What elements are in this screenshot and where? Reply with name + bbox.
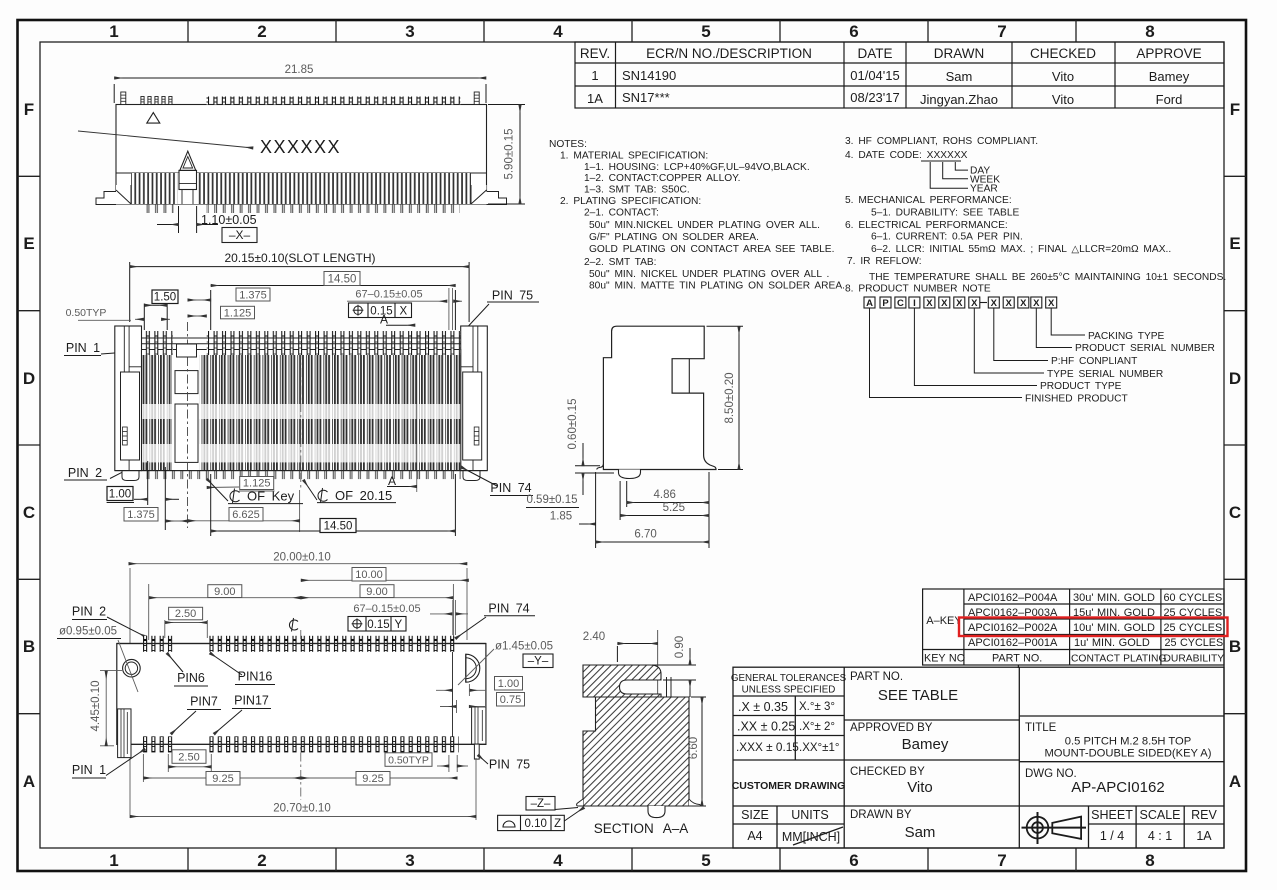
svg-text:X: X xyxy=(1006,298,1013,309)
top tick marks xyxy=(188,20,1076,42)
pin 75 tail xyxy=(474,744,479,759)
svg-text:3: 3 xyxy=(405,851,414,870)
date code underline + tree xyxy=(921,160,961,162)
svg-text:X: X xyxy=(941,298,948,309)
svg-text:20.15±0.10(SLOT LENGTH): 20.15±0.10(SLOT LENGTH) xyxy=(224,251,375,265)
svg-text:1–3. SMT TAB: S50C.: 1–3. SMT TAB: S50C. xyxy=(584,185,690,196)
svg-text:.XX ± 0.25: .XX ± 0.25 xyxy=(737,720,795,734)
svg-text:UNITS: UNITS xyxy=(791,808,829,822)
dim 21.85 xyxy=(114,78,486,103)
svg-text:TITLE: TITLE xyxy=(1025,722,1057,734)
svg-text:4 : 1: 4 : 1 xyxy=(1148,829,1172,843)
svg-text:9.00: 9.00 xyxy=(214,586,235,598)
svg-text:6.70: 6.70 xyxy=(634,529,656,541)
svg-text:8: 8 xyxy=(1145,851,1154,870)
svg-text:3. HF COMPLIANT, ROHS COMPLIAN: 3. HF COMPLIANT, ROHS COMPLIANT. xyxy=(845,136,1038,147)
svg-text:4: 4 xyxy=(553,851,563,870)
svg-text:5: 5 xyxy=(701,22,710,41)
svg-text:THE TEMPERATURE SHALL BE 260±5: THE TEMPERATURE SHALL BE 260±5°C MAINTAI… xyxy=(869,272,1226,283)
dim 1.00 xyxy=(107,487,133,501)
svg-text:F: F xyxy=(24,100,34,119)
svg-text:B: B xyxy=(1229,637,1241,656)
right SMT tab xyxy=(472,707,486,744)
middle molded body with contacts xyxy=(142,350,461,471)
strike through INCH xyxy=(793,827,843,845)
svg-text:0.50TYP: 0.50TYP xyxy=(66,307,107,319)
svg-text:50u" MIN. NICKEL UNDER PLATING: 50u" MIN. NICKEL UNDER PLATING OVER ALL … xyxy=(589,269,829,280)
svg-text:1.00: 1.00 xyxy=(109,489,131,501)
svg-text:X: X xyxy=(1033,298,1040,309)
svg-text:PIN16: PIN16 xyxy=(238,670,273,684)
svg-text:9.25: 9.25 xyxy=(362,773,383,785)
svg-text:20.00±0.10: 20.00±0.10 xyxy=(273,552,330,564)
svg-text:67–0.15±0.05: 67–0.15±0.05 xyxy=(353,603,420,615)
svg-text:CUSTOMER DRAWING: CUSTOMER DRAWING xyxy=(732,780,846,792)
svg-text:3: 3 xyxy=(405,22,414,41)
svg-text:F: F xyxy=(1230,100,1240,119)
svg-text:NOTES:: NOTES: xyxy=(549,139,587,150)
svg-text:6: 6 xyxy=(849,851,858,870)
svg-text:4: 4 xyxy=(553,22,563,41)
svg-text:PIN 75: PIN 75 xyxy=(492,289,533,303)
svg-text:APPROVED BY: APPROVED BY xyxy=(850,722,933,734)
svg-text:67–0.15±0.05: 67–0.15±0.05 xyxy=(355,289,422,301)
revision table grid xyxy=(575,42,1224,108)
svg-text:1: 1 xyxy=(109,22,118,41)
svg-text:01/04'15: 01/04'15 xyxy=(850,68,899,83)
svg-text:A: A xyxy=(388,474,396,488)
bottom corner steps xyxy=(116,185,131,204)
grid column numbers top xyxy=(109,22,1154,41)
D-shaped key hole xyxy=(466,654,480,682)
svg-text:AP-APCI0162: AP-APCI0162 xyxy=(1071,779,1164,796)
svg-text:PIN 2: PIN 2 xyxy=(68,466,102,480)
svg-text:GOLD PLATING ON CONTACT AREA S: GOLD PLATING ON CONTACT AREA SEE TABLE. xyxy=(589,244,834,255)
position frame 0.15 Y xyxy=(348,617,406,632)
dim 1.375 bottom xyxy=(124,508,158,522)
datum -Y- box xyxy=(523,654,553,668)
svg-text:7: 7 xyxy=(997,851,1006,870)
solder peg below xyxy=(648,806,665,818)
left tick marks xyxy=(18,176,41,713)
svg-text:.X ± 0.35: .X ± 0.35 xyxy=(738,700,788,714)
svg-text:CHECKED: CHECKED xyxy=(1030,46,1096,61)
svg-text:FINISHED PRODUCT: FINISHED PRODUCT xyxy=(1025,394,1128,405)
svg-text:KEY NO: KEY NO xyxy=(924,653,965,665)
svg-text:6–2. LLCR: INITIAL 55mΩ MAX. ;: 6–2. LLCR: INITIAL 55mΩ MAX. ; FINAL △LL… xyxy=(871,244,1171,255)
svg-text:A: A xyxy=(380,313,388,327)
svg-text:6–1. CURRENT: 0.5A PER PIN.: 6–1. CURRENT: 0.5A PER PIN. xyxy=(871,232,1023,243)
svg-text:1 / 4: 1 / 4 xyxy=(1100,829,1124,843)
svg-text:2. PLATING SPECIFICATION:: 2. PLATING SPECIFICATION: xyxy=(560,196,701,207)
svg-text:1: 1 xyxy=(591,68,598,83)
inner contact line in notch xyxy=(688,359,690,393)
hatched main body xyxy=(583,697,689,806)
svg-text:Vito: Vito xyxy=(907,779,933,796)
svg-text:.XXX ± 0.15: .XXX ± 0.15 xyxy=(736,740,799,754)
svg-text:CONTACT PLATING: CONTACT PLATING xyxy=(1071,654,1166,665)
top rail lines xyxy=(142,337,461,339)
svg-text:PIN 1: PIN 1 xyxy=(66,341,100,355)
svg-text:7: 7 xyxy=(997,22,1006,41)
datum -X- box xyxy=(222,228,257,243)
svg-text:MOUNT-DOUBLE SIDED(KEY A): MOUNT-DOUBLE SIDED(KEY A) xyxy=(1044,748,1211,760)
tolerance cell lines xyxy=(733,695,844,697)
svg-text:0.75: 0.75 xyxy=(500,694,521,706)
right column rows xyxy=(1019,715,1224,717)
svg-text:SN14190: SN14190 xyxy=(622,68,676,83)
svg-text:PIN 2: PIN 2 xyxy=(72,605,106,619)
dense contact area xyxy=(142,355,460,471)
svg-text:E: E xyxy=(23,234,34,253)
feet xyxy=(122,471,139,481)
svg-text:80u" MIN. MATTE TIN PLATING ON: 80u" MIN. MATTE TIN PLATING ON SOLDER AR… xyxy=(589,281,845,292)
column separators xyxy=(142,355,460,471)
svg-text:APPROVE: APPROVE xyxy=(1136,46,1201,61)
svg-text:0.59±0.15: 0.59±0.15 xyxy=(526,494,577,506)
svg-text:ø0.95±0.05: ø0.95±0.05 xyxy=(59,626,117,638)
svg-text:X: X xyxy=(399,306,407,318)
svg-text:25 CYCLES: 25 CYCLES xyxy=(1165,637,1224,649)
svg-text:60 CYCLES: 60 CYCLES xyxy=(1164,592,1223,604)
dim 1.50 xyxy=(152,290,178,304)
svg-text:X.°± 3°: X.°± 3° xyxy=(799,701,835,713)
dim 1.125 top xyxy=(221,306,255,319)
svg-text:30u' MIN. GOLD: 30u' MIN. GOLD xyxy=(1073,592,1155,604)
svg-text:ECR/N NO./DESCRIPTION: ECR/N NO./DESCRIPTION xyxy=(646,46,812,61)
svg-text:0.90: 0.90 xyxy=(674,636,686,658)
third angle projection symbol xyxy=(1022,812,1087,844)
dim 20.15 slot length xyxy=(130,262,469,322)
svg-text:Vito: Vito xyxy=(1052,69,1074,84)
dim 10.00 xyxy=(301,579,469,581)
svg-text:8: 8 xyxy=(1145,22,1154,41)
svg-text:SEE TABLE: SEE TABLE xyxy=(878,687,958,704)
svg-text:I: I xyxy=(913,298,916,309)
left end block xyxy=(115,326,142,471)
hatched top block with latch slot xyxy=(583,665,661,697)
title block grid xyxy=(733,667,1224,848)
middle column texts xyxy=(850,671,933,821)
grid row letters left xyxy=(23,100,35,791)
dim 1.10±0.05 xyxy=(157,206,218,233)
key box top xyxy=(177,344,197,357)
svg-text:9.00: 9.00 xyxy=(366,586,387,598)
grid row letters right xyxy=(1229,100,1241,791)
svg-text:PIN6: PIN6 xyxy=(177,671,205,685)
right end block xyxy=(461,326,488,471)
dim 5.90±0.15 xyxy=(488,105,525,205)
key table rows xyxy=(924,592,1224,665)
svg-text:TYPE SERIAL NUMBER: TYPE SERIAL NUMBER xyxy=(1047,369,1163,380)
svg-text:14.50: 14.50 xyxy=(328,274,357,286)
svg-text:2–2. SMT TAB:: 2–2. SMT TAB: xyxy=(584,257,657,268)
svg-text:B: B xyxy=(23,637,35,656)
svg-text:50u" MIN.NICKEL UNDER PLATING: 50u" MIN.NICKEL UNDER PLATING OVER ALL. xyxy=(589,220,820,231)
svg-text:0.50TYP: 0.50TYP xyxy=(388,754,429,766)
svg-text:REV.: REV. xyxy=(580,46,610,61)
leader lines to descriptions xyxy=(870,308,1086,398)
dim 14.50 bottom xyxy=(211,474,456,536)
svg-text:A: A xyxy=(866,298,873,309)
svg-text:1: 1 xyxy=(109,851,118,870)
svg-text:25 CYCLES: 25 CYCLES xyxy=(1164,622,1223,634)
svg-text:X: X xyxy=(991,298,998,309)
bottom tick marks xyxy=(188,848,1076,871)
svg-text:1u' MIN. GOLD: 1u' MIN. GOLD xyxy=(1074,637,1150,649)
dim 14.50 top xyxy=(211,286,456,331)
key marker triangle xyxy=(180,151,196,170)
revision row 2 xyxy=(587,90,1182,107)
svg-text:OF Key: OF Key xyxy=(247,489,295,504)
svg-text:9.25: 9.25 xyxy=(212,773,233,785)
index triangle small xyxy=(147,113,160,124)
svg-text:10.00: 10.00 xyxy=(355,569,383,581)
svg-text:D: D xyxy=(1229,369,1241,388)
svg-text:0.15: 0.15 xyxy=(367,619,389,631)
svg-text:SN17***: SN17*** xyxy=(622,90,670,105)
svg-text:REV: REV xyxy=(1191,808,1217,822)
top edge pins row (small) xyxy=(121,92,479,105)
revision row 1 xyxy=(591,68,1189,84)
svg-text:APCI0162–P004A: APCI0162–P004A xyxy=(968,592,1058,604)
svg-text:X: X xyxy=(926,298,933,309)
svg-text:6. ELECTRICAL PERFORMANCE:: 6. ELECTRICAL PERFORMANCE: xyxy=(845,220,1008,231)
marking leader line xyxy=(78,131,253,148)
top pins main row xyxy=(207,331,461,355)
red highlight box on P002A row xyxy=(959,618,1228,637)
svg-text:1–1. HOUSING: LCP+40%GF,UL–94V: 1–1. HOUSING: LCP+40%GF,UL–94VO,BLACK. xyxy=(584,162,810,173)
svg-text:08/23'17: 08/23'17 xyxy=(850,90,899,105)
svg-text:1.125: 1.125 xyxy=(224,307,252,319)
top pins xyxy=(143,636,176,652)
svg-text:ø1.45±0.05: ø1.45±0.05 xyxy=(495,641,553,653)
svg-text:2.50: 2.50 xyxy=(175,608,196,620)
side view outline xyxy=(603,326,716,469)
dim 2.50 top xyxy=(169,607,203,620)
dim 1.125 bottom xyxy=(240,477,274,490)
svg-text:A–KEY: A–KEY xyxy=(926,615,962,627)
svg-text:PIN 75: PIN 75 xyxy=(489,758,530,772)
section cut centerline xyxy=(657,630,659,818)
svg-text:E: E xyxy=(1229,234,1240,253)
svg-text:MM[INCH]: MM[INCH] xyxy=(782,830,840,844)
svg-text:20.70±0.10: 20.70±0.10 xyxy=(273,803,330,815)
svg-text:1A: 1A xyxy=(587,91,603,106)
centerline symbol + dashed line xyxy=(289,618,298,632)
CL OF 20.15 label xyxy=(318,488,328,503)
svg-text:P:HF CONPLIANT: P:HF CONPLIANT xyxy=(1051,356,1137,367)
svg-text:SECTION A–A: SECTION A–A xyxy=(594,821,689,836)
dense contact band xyxy=(131,173,471,204)
svg-text:0.10: 0.10 xyxy=(525,818,547,830)
revision table header text xyxy=(580,46,1202,61)
svg-text:–Y–: –Y– xyxy=(528,656,549,668)
grid column numbers bottom xyxy=(109,851,1154,870)
svg-text:2.50: 2.50 xyxy=(178,751,199,763)
svg-text:6.60: 6.60 xyxy=(688,737,700,759)
dim 9.00 right xyxy=(301,597,454,599)
svg-text:1.85: 1.85 xyxy=(550,511,572,523)
svg-text:–Z–: –Z– xyxy=(531,798,551,810)
svg-text:Sam: Sam xyxy=(946,69,973,84)
svg-text:1.00: 1.00 xyxy=(498,678,519,690)
dim 0.75 xyxy=(497,693,525,707)
svg-text:A: A xyxy=(1229,772,1241,791)
svg-text:14.50: 14.50 xyxy=(324,521,353,533)
svg-text:0.60±0.15: 0.60±0.15 xyxy=(567,398,579,449)
svg-text:PART NO.: PART NO. xyxy=(992,653,1042,665)
tolerance texts xyxy=(731,673,847,696)
svg-text:PIN 1: PIN 1 xyxy=(72,763,106,777)
key slot white gap xyxy=(178,173,198,204)
dim 1.00 xyxy=(495,677,523,691)
datum -Z- box xyxy=(526,797,555,811)
key box xyxy=(179,170,197,189)
svg-text:1. MATERIAL SPECIFICATION:: 1. MATERIAL SPECIFICATION: xyxy=(560,151,708,162)
position frame 0.15 X xyxy=(349,303,412,318)
svg-text:1.50: 1.50 xyxy=(154,292,176,304)
svg-text:21.85: 21.85 xyxy=(285,64,314,76)
dim 0.50TYP xyxy=(385,753,432,767)
svg-text:OF 20.15: OF 20.15 xyxy=(335,488,392,503)
svg-text:A: A xyxy=(23,772,35,791)
top pins left group xyxy=(142,331,173,355)
svg-text:5–1. DURABILITY: SEE TABLE: 5–1. DURABILITY: SEE TABLE xyxy=(871,208,1020,219)
dim 9.25 left xyxy=(142,754,144,782)
svg-text:6: 6 xyxy=(849,22,858,41)
svg-text:1.375: 1.375 xyxy=(127,509,155,521)
key column xyxy=(172,355,200,471)
middle column rows xyxy=(844,719,1019,721)
svg-text:SHEET: SHEET xyxy=(1091,808,1133,822)
20.15 centerline dashed xyxy=(300,333,302,490)
svg-text:C: C xyxy=(23,503,35,522)
svg-text:5. MECHANICAL PERFORMANCE:: 5. MECHANICAL PERFORMANCE: xyxy=(845,195,1012,206)
svg-text:Sam: Sam xyxy=(905,824,936,841)
svg-text:PIN 74: PIN 74 xyxy=(490,481,531,495)
solder peg below xyxy=(619,470,641,479)
svg-text:1.10±0.05: 1.10±0.05 xyxy=(201,213,257,227)
svg-text:Jingyan.Zhao: Jingyan.Zhao xyxy=(920,92,998,107)
svg-text:P: P xyxy=(882,298,889,309)
svg-text:UNLESS SPECIFIED: UNLESS SPECIFIED xyxy=(742,685,836,696)
svg-text:0.5 PITCH M.2 8.5H TOP: 0.5 PITCH M.2 8.5H TOP xyxy=(1065,736,1191,748)
svg-text:Y: Y xyxy=(394,619,402,631)
svg-text:X: X xyxy=(1020,298,1027,309)
svg-text:Vito: Vito xyxy=(1052,92,1074,107)
svg-text:1.375: 1.375 xyxy=(239,289,267,301)
svg-text:7. IR REFLOW:: 7. IR REFLOW: xyxy=(847,256,922,267)
svg-text:DRAWN BY: DRAWN BY xyxy=(850,809,912,821)
dim 9.00 left xyxy=(149,597,301,599)
svg-text:PIN 74: PIN 74 xyxy=(488,602,529,616)
body outline xyxy=(117,644,486,745)
bottom edge line xyxy=(115,470,488,472)
svg-text:.XX°±1°: .XX°±1° xyxy=(799,742,839,754)
dim 8.50±0.20 xyxy=(707,326,744,469)
bottom pins xyxy=(140,736,173,752)
svg-text:XXXXXX: XXXXXX xyxy=(260,137,341,157)
CL OF Key label xyxy=(230,489,240,504)
svg-text:Ford: Ford xyxy=(1156,92,1183,107)
svg-text:Z: Z xyxy=(554,818,561,830)
svg-text:G/F" PLATING ON SOLDER AREA.: G/F" PLATING ON SOLDER AREA. xyxy=(589,232,759,243)
svg-text:–X–: –X– xyxy=(229,228,251,242)
svg-text:X: X xyxy=(971,298,978,309)
key centerline dashed xyxy=(187,322,189,528)
feet flares xyxy=(577,799,583,806)
svg-text:X: X xyxy=(1048,298,1055,309)
svg-text:APCI0162–P001A: APCI0162–P001A xyxy=(968,637,1058,649)
svg-text:4.86: 4.86 xyxy=(654,489,676,501)
mounting hole circle xyxy=(123,659,141,677)
svg-text:8.50±0.20: 8.50±0.20 xyxy=(724,372,736,423)
svg-text:5.90±0.15: 5.90±0.15 xyxy=(504,128,516,179)
svg-text:DWG NO.: DWG NO. xyxy=(1025,768,1077,780)
product number boxes A P C I X X X X - X X X X X xyxy=(864,297,1057,308)
svg-text:SCALE: SCALE xyxy=(1140,808,1181,822)
svg-text:DURABILITY: DURABILITY xyxy=(1164,654,1225,665)
svg-text:2–1. CONTACT:: 2–1. CONTACT: xyxy=(584,208,659,219)
svg-text:4.45±0.10: 4.45±0.10 xyxy=(90,680,102,731)
svg-text:1A: 1A xyxy=(1196,829,1212,843)
svg-text:CHECKED BY: CHECKED BY xyxy=(850,766,925,778)
dim 9.25 right xyxy=(301,777,457,779)
connector body top view xyxy=(116,105,487,205)
svg-text:8. PRODUCT NUMBER NOTE: 8. PRODUCT NUMBER NOTE xyxy=(845,284,991,295)
svg-text:DRAWN: DRAWN xyxy=(934,46,985,61)
svg-text:D: D xyxy=(23,369,35,388)
svg-text:PRODUCT TYPE: PRODUCT TYPE xyxy=(1040,381,1122,392)
dim 1.375 top xyxy=(236,288,270,301)
right tick marks xyxy=(1224,176,1246,713)
section cut line xyxy=(416,332,418,492)
left SMT tab xyxy=(118,709,131,758)
svg-text:APCI0162–P002A: APCI0162–P002A xyxy=(968,622,1058,634)
svg-text:A4: A4 xyxy=(747,829,762,843)
svg-text:PIN17: PIN17 xyxy=(234,694,269,708)
svg-text:YEAR: YEAR xyxy=(970,184,998,195)
bottom-left foot flare xyxy=(597,464,604,470)
svg-text:5: 5 xyxy=(701,851,710,870)
svg-text:5.25: 5.25 xyxy=(663,502,685,514)
svg-text:10u' MIN. GOLD: 10u' MIN. GOLD xyxy=(1073,622,1155,634)
svg-text:6.625: 6.625 xyxy=(232,509,260,521)
key table grid xyxy=(923,589,1224,668)
pin tips below body xyxy=(142,204,174,213)
svg-text:2: 2 xyxy=(257,851,266,870)
svg-text:DATE: DATE xyxy=(857,46,892,61)
contact lines in slot xyxy=(666,677,668,697)
lighter horizontal bands xyxy=(142,404,460,419)
svg-text:SIZE: SIZE xyxy=(741,808,769,822)
svg-text:2.40: 2.40 xyxy=(583,631,605,643)
svg-text:PART NO.: PART NO. xyxy=(850,671,903,683)
svg-text:GENERAL TOLERANCES: GENERAL TOLERANCES xyxy=(731,673,847,684)
bottom pin tips xyxy=(142,471,461,480)
svg-text:2: 2 xyxy=(257,22,266,41)
dim 6.625 xyxy=(229,508,263,522)
flatness frame 0.10 Z xyxy=(498,815,565,830)
svg-text:.X°± 2°: .X°± 2° xyxy=(799,721,835,733)
svg-text:PACKING TYPE: PACKING TYPE xyxy=(1088,331,1165,342)
dim 2.50 bottom xyxy=(172,750,206,764)
svg-text:1–2. CONTACT:COPPER ALLOY.: 1–2. CONTACT:COPPER ALLOY. xyxy=(584,173,741,184)
svg-text:PRODUCT SERIAL NUMBER: PRODUCT SERIAL NUMBER xyxy=(1075,343,1215,354)
svg-text:4. DATE CODE: XXXXXX: 4. DATE CODE: XXXXXX xyxy=(845,150,968,161)
svg-text:Bamey: Bamey xyxy=(1149,69,1190,84)
